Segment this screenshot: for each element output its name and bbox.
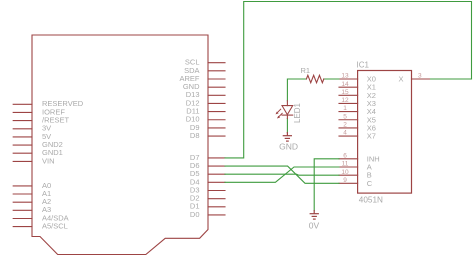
IC left pin stubs X0..X7 (339, 79, 358, 136)
svg-text:12: 12 (341, 97, 349, 104)
IC left pin stubs INH,A,B,C (339, 159, 358, 184)
svg-text:D0: D0 (190, 210, 200, 219)
Arduino right pins D7..D0 (208, 158, 225, 215)
svg-text:C: C (367, 179, 373, 188)
IC pin names (367, 75, 404, 188)
svg-text:2: 2 (343, 122, 347, 129)
wire INH to 0V rail (314, 159, 339, 211)
svg-text:D8: D8 (190, 131, 200, 140)
svg-text:3: 3 (418, 73, 422, 80)
Arduino left pin labels (42, 99, 84, 230)
svg-text:GND: GND (279, 142, 298, 152)
svg-text:X7: X7 (367, 132, 376, 141)
svg-text:9: 9 (343, 177, 347, 184)
svg-text:13: 13 (341, 73, 349, 80)
svg-text:5: 5 (343, 113, 347, 120)
wire R1 right to X0 pin (324, 78, 339, 80)
svg-text:4051N: 4051N (359, 196, 383, 205)
svg-text:R1: R1 (301, 66, 311, 75)
Arduino right pins SCL..D8 (208, 63, 225, 136)
wire D5 to B pin (225, 174, 339, 175)
wire net D7 to X output (over the top) (225, 2, 472, 158)
IC pin numbers (341, 73, 422, 184)
svg-text:IC1: IC1 (357, 61, 370, 70)
wire LED cathode to GND (286, 119, 288, 133)
svg-text:4: 4 (343, 130, 347, 137)
Arduino module U$1 body (32, 35, 208, 255)
Arduino right pin labels (179, 58, 200, 219)
svg-text:15: 15 (341, 89, 349, 96)
Arduino left pins A0..A5/SCL (13, 186, 32, 227)
wire R1 left to LED junction (287, 79, 306, 101)
LED1 emission arrows (277, 109, 282, 117)
svg-text:10: 10 (341, 169, 349, 176)
svg-text:A5/SCL: A5/SCL (42, 222, 68, 231)
svg-text:0V: 0V (309, 220, 320, 230)
svg-text:11: 11 (342, 161, 349, 168)
IC U1 4051N body (358, 71, 412, 194)
LED LED1 (282, 101, 293, 119)
svg-text:VIN: VIN (42, 156, 55, 165)
ground GND under LED (283, 133, 291, 142)
svg-text:1: 1 (343, 105, 347, 112)
IC right pin stub X (pin 3) (412, 78, 431, 80)
Arduino left pins RESERVED..VIN (13, 104, 32, 161)
wire D6 to C pin (225, 166, 339, 183)
resistor R1 (306, 75, 323, 82)
svg-text:LED1: LED1 (293, 102, 302, 123)
wire D4 to A pin (225, 167, 339, 182)
svg-text:X: X (398, 75, 403, 84)
supply 0V symbol (310, 211, 318, 220)
svg-text:6: 6 (343, 152, 347, 159)
svg-text:14: 14 (341, 81, 349, 88)
